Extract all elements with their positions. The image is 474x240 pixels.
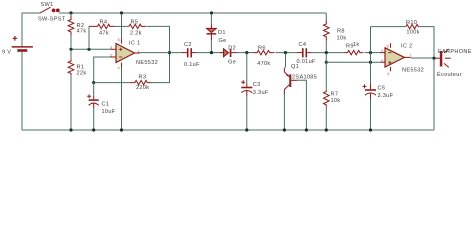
wire earphone column down xyxy=(433,58,435,130)
svg-text:R7: R7 xyxy=(331,92,339,98)
battery BAT1 xyxy=(12,36,33,52)
node gnd Q1 base xyxy=(305,128,308,131)
svg-text:C2: C2 xyxy=(184,42,192,48)
wire IC1 output line xyxy=(140,52,182,54)
node gnd C1 xyxy=(92,128,95,131)
resistor R8 10k vertical xyxy=(324,13,330,53)
svg-text:NE5532: NE5532 xyxy=(402,67,424,73)
resistor R5 2.2k xyxy=(129,24,170,52)
svg-text:3: 3 xyxy=(381,58,383,63)
node junction earphone xyxy=(432,57,435,60)
wire bottom rail xyxy=(22,129,434,131)
svg-text:3.3uF: 3.3uF xyxy=(253,90,269,96)
svg-text:8: 8 xyxy=(118,37,120,42)
svg-text:47k: 47k xyxy=(77,29,87,35)
node junction C1/R3/pin2 xyxy=(92,81,95,84)
svg-text:R8: R8 xyxy=(337,28,345,34)
svg-text:D1: D1 xyxy=(218,30,226,36)
svg-text:Ge: Ge xyxy=(219,38,227,44)
svg-text:100k: 100k xyxy=(406,30,419,36)
svg-text:2: 2 xyxy=(381,48,383,53)
resistor R10 100k xyxy=(371,24,435,58)
switch SW1 xyxy=(40,7,60,13)
wire top rail main segment xyxy=(59,12,326,14)
node gnd C3 xyxy=(245,128,248,131)
capacitor C4 0.01uF xyxy=(297,48,344,57)
svg-text:10uF: 10uF xyxy=(102,109,116,115)
node junction R8/R7 pin3 line xyxy=(325,61,328,64)
node gnd R1 xyxy=(69,128,72,131)
svg-text:R4: R4 xyxy=(100,20,108,26)
node junction R10 column pin2 xyxy=(369,51,372,54)
earphone LS1 xyxy=(434,49,451,67)
wire R10/C5 column xyxy=(370,27,372,84)
node junction D1 on signal line xyxy=(210,51,213,54)
resistor R6 470k xyxy=(252,50,297,54)
svg-text:1: 1 xyxy=(138,48,140,53)
svg-text:3: 3 xyxy=(110,45,112,50)
transistor Q1 2SA1085 xyxy=(284,53,306,130)
node junction C3 column xyxy=(245,51,248,54)
op-amp IC1 NE5532 xyxy=(111,13,140,130)
capacitor C5 3.3uF polarized xyxy=(363,84,377,130)
resistor R4 47k with drop to bias node xyxy=(89,24,129,49)
svg-text:SW-SPST: SW-SPST xyxy=(38,17,66,23)
svg-text:10k: 10k xyxy=(337,36,347,42)
node junction output of IC1 / feedback xyxy=(168,51,171,54)
svg-text:SW1: SW1 xyxy=(41,2,54,8)
node V+ junction at R2 top xyxy=(69,11,72,14)
svg-text:R3: R3 xyxy=(139,75,147,81)
node gnd IC1 pin4 xyxy=(120,128,123,131)
svg-text:C3: C3 xyxy=(253,82,261,88)
resistor R9 1k xyxy=(344,50,380,54)
svg-text:47k: 47k xyxy=(99,31,109,37)
junction IC1 pin8 column on top rail xyxy=(120,11,123,14)
resistor R2 47k xyxy=(68,13,74,49)
svg-text:Ge: Ge xyxy=(228,60,236,66)
wire top rail left segment xyxy=(22,13,40,46)
capacitor C3 3.3uF polarized xyxy=(241,53,252,130)
svg-text:Écouteur: Écouteur xyxy=(437,71,462,78)
node gnd Q1 collector xyxy=(283,128,286,131)
wire bias node to IC1 pin3 xyxy=(71,48,111,50)
svg-text:C5: C5 xyxy=(378,86,386,92)
svg-text:C4: C4 xyxy=(299,42,307,48)
resistor R7 10k vertical xyxy=(324,53,330,130)
svg-text:IC 2: IC 2 xyxy=(401,43,412,49)
wire IC2 output to earphone xyxy=(410,57,434,59)
capacitor C2 0.1uF xyxy=(182,48,222,57)
svg-text:1k: 1k xyxy=(353,42,360,48)
node gnd C5 xyxy=(369,128,372,131)
resistor R3 220k xyxy=(130,53,170,85)
wire IC2 pin3 line xyxy=(326,61,380,63)
svg-text:R6: R6 xyxy=(258,46,266,52)
svg-text:0.01uF: 0.01uF xyxy=(297,59,316,65)
svg-text:8: 8 xyxy=(387,43,389,48)
svg-text:0.1uF: 0.1uF xyxy=(184,62,200,68)
op-amp IC2 NE5532 xyxy=(380,43,410,71)
svg-text:22k: 22k xyxy=(77,70,87,76)
svg-text:2SA1085: 2SA1085 xyxy=(292,75,317,81)
capacitor C1 10uF polarized xyxy=(87,83,99,130)
diode D1 Ge vertical xyxy=(207,13,217,53)
node junction Q1 emitter column xyxy=(284,51,287,54)
resistor R1 22k xyxy=(68,49,74,130)
wire R3 node to R3 xyxy=(94,82,130,84)
svg-text:3.3uF: 3.3uF xyxy=(378,93,394,99)
svg-text:R5: R5 xyxy=(131,20,139,26)
svg-text:9 V: 9 V xyxy=(2,50,11,56)
svg-text:NE5532: NE5532 xyxy=(136,60,158,66)
junction D1 column on top rail xyxy=(210,11,213,14)
node gnd R7 xyxy=(325,128,328,131)
svg-text:1: 1 xyxy=(410,52,412,57)
svg-text:EARPHONE: EARPHONE xyxy=(438,49,472,55)
svg-text:C1: C1 xyxy=(102,102,110,108)
node junction R4 drop xyxy=(87,48,90,51)
diode D2 Ge horizontal xyxy=(220,49,252,57)
svg-text:470k: 470k xyxy=(257,61,270,67)
svg-text:220k: 220k xyxy=(136,85,149,91)
node junction C5 column pin3 xyxy=(369,61,372,64)
svg-text:IC 1: IC 1 xyxy=(129,41,140,47)
node bias junction at R2/R1 xyxy=(69,48,72,51)
wire battery negative to bottom rail xyxy=(21,52,23,130)
svg-text:2.2k: 2.2k xyxy=(130,31,142,37)
svg-text:R10: R10 xyxy=(406,20,417,26)
node junction R8/C4/R9 xyxy=(325,51,328,54)
svg-text:10k: 10k xyxy=(331,98,341,104)
svg-text:D2: D2 xyxy=(228,46,236,52)
wire IC1 pin2 to C1/R3 node xyxy=(94,57,111,83)
